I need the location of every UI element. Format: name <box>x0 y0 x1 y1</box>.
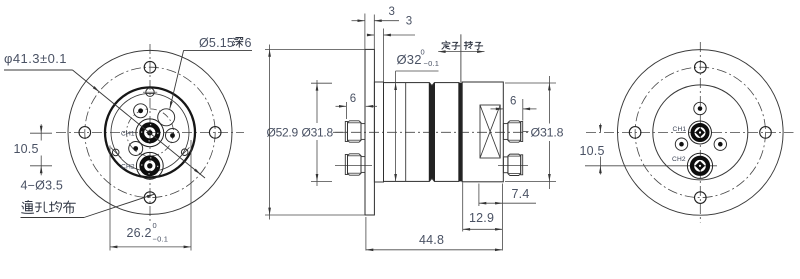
svg-text:Ø52.9: Ø52.9 <box>267 126 299 140</box>
svg-text:Ø31.8: Ø31.8 <box>302 126 334 140</box>
svg-text:6: 6 <box>245 36 252 50</box>
svg-text:10.5: 10.5 <box>580 144 605 158</box>
svg-text:6: 6 <box>350 93 357 105</box>
svg-text:0: 0 <box>421 48 425 57</box>
svg-text:4−Ø3.5: 4−Ø3.5 <box>21 179 64 193</box>
svg-text:Ø31.8: Ø31.8 <box>531 126 564 140</box>
svg-text:CH1: CH1 <box>673 126 687 133</box>
svg-text:44.8: 44.8 <box>419 233 444 247</box>
svg-text:12.9: 12.9 <box>469 211 494 225</box>
svg-text:CH2: CH2 <box>121 164 135 171</box>
svg-text:Ø32: Ø32 <box>397 52 422 67</box>
svg-text:3: 3 <box>389 6 396 18</box>
svg-text:26.2: 26.2 <box>127 226 152 240</box>
svg-text:Ø5.15: Ø5.15 <box>199 36 234 50</box>
svg-text:7.4: 7.4 <box>512 187 530 201</box>
svg-text:φ41.3±0.1: φ41.3±0.1 <box>4 51 67 66</box>
svg-text:CH2: CH2 <box>672 156 686 163</box>
svg-text:10.5: 10.5 <box>14 142 39 156</box>
svg-text:3: 3 <box>406 16 413 28</box>
svg-text:6: 6 <box>510 96 517 108</box>
svg-text:CH1: CH1 <box>121 131 135 138</box>
svg-text:−0.1: −0.1 <box>424 59 440 68</box>
svg-text:−0.1: −0.1 <box>153 235 169 244</box>
svg-text:0: 0 <box>153 221 157 230</box>
